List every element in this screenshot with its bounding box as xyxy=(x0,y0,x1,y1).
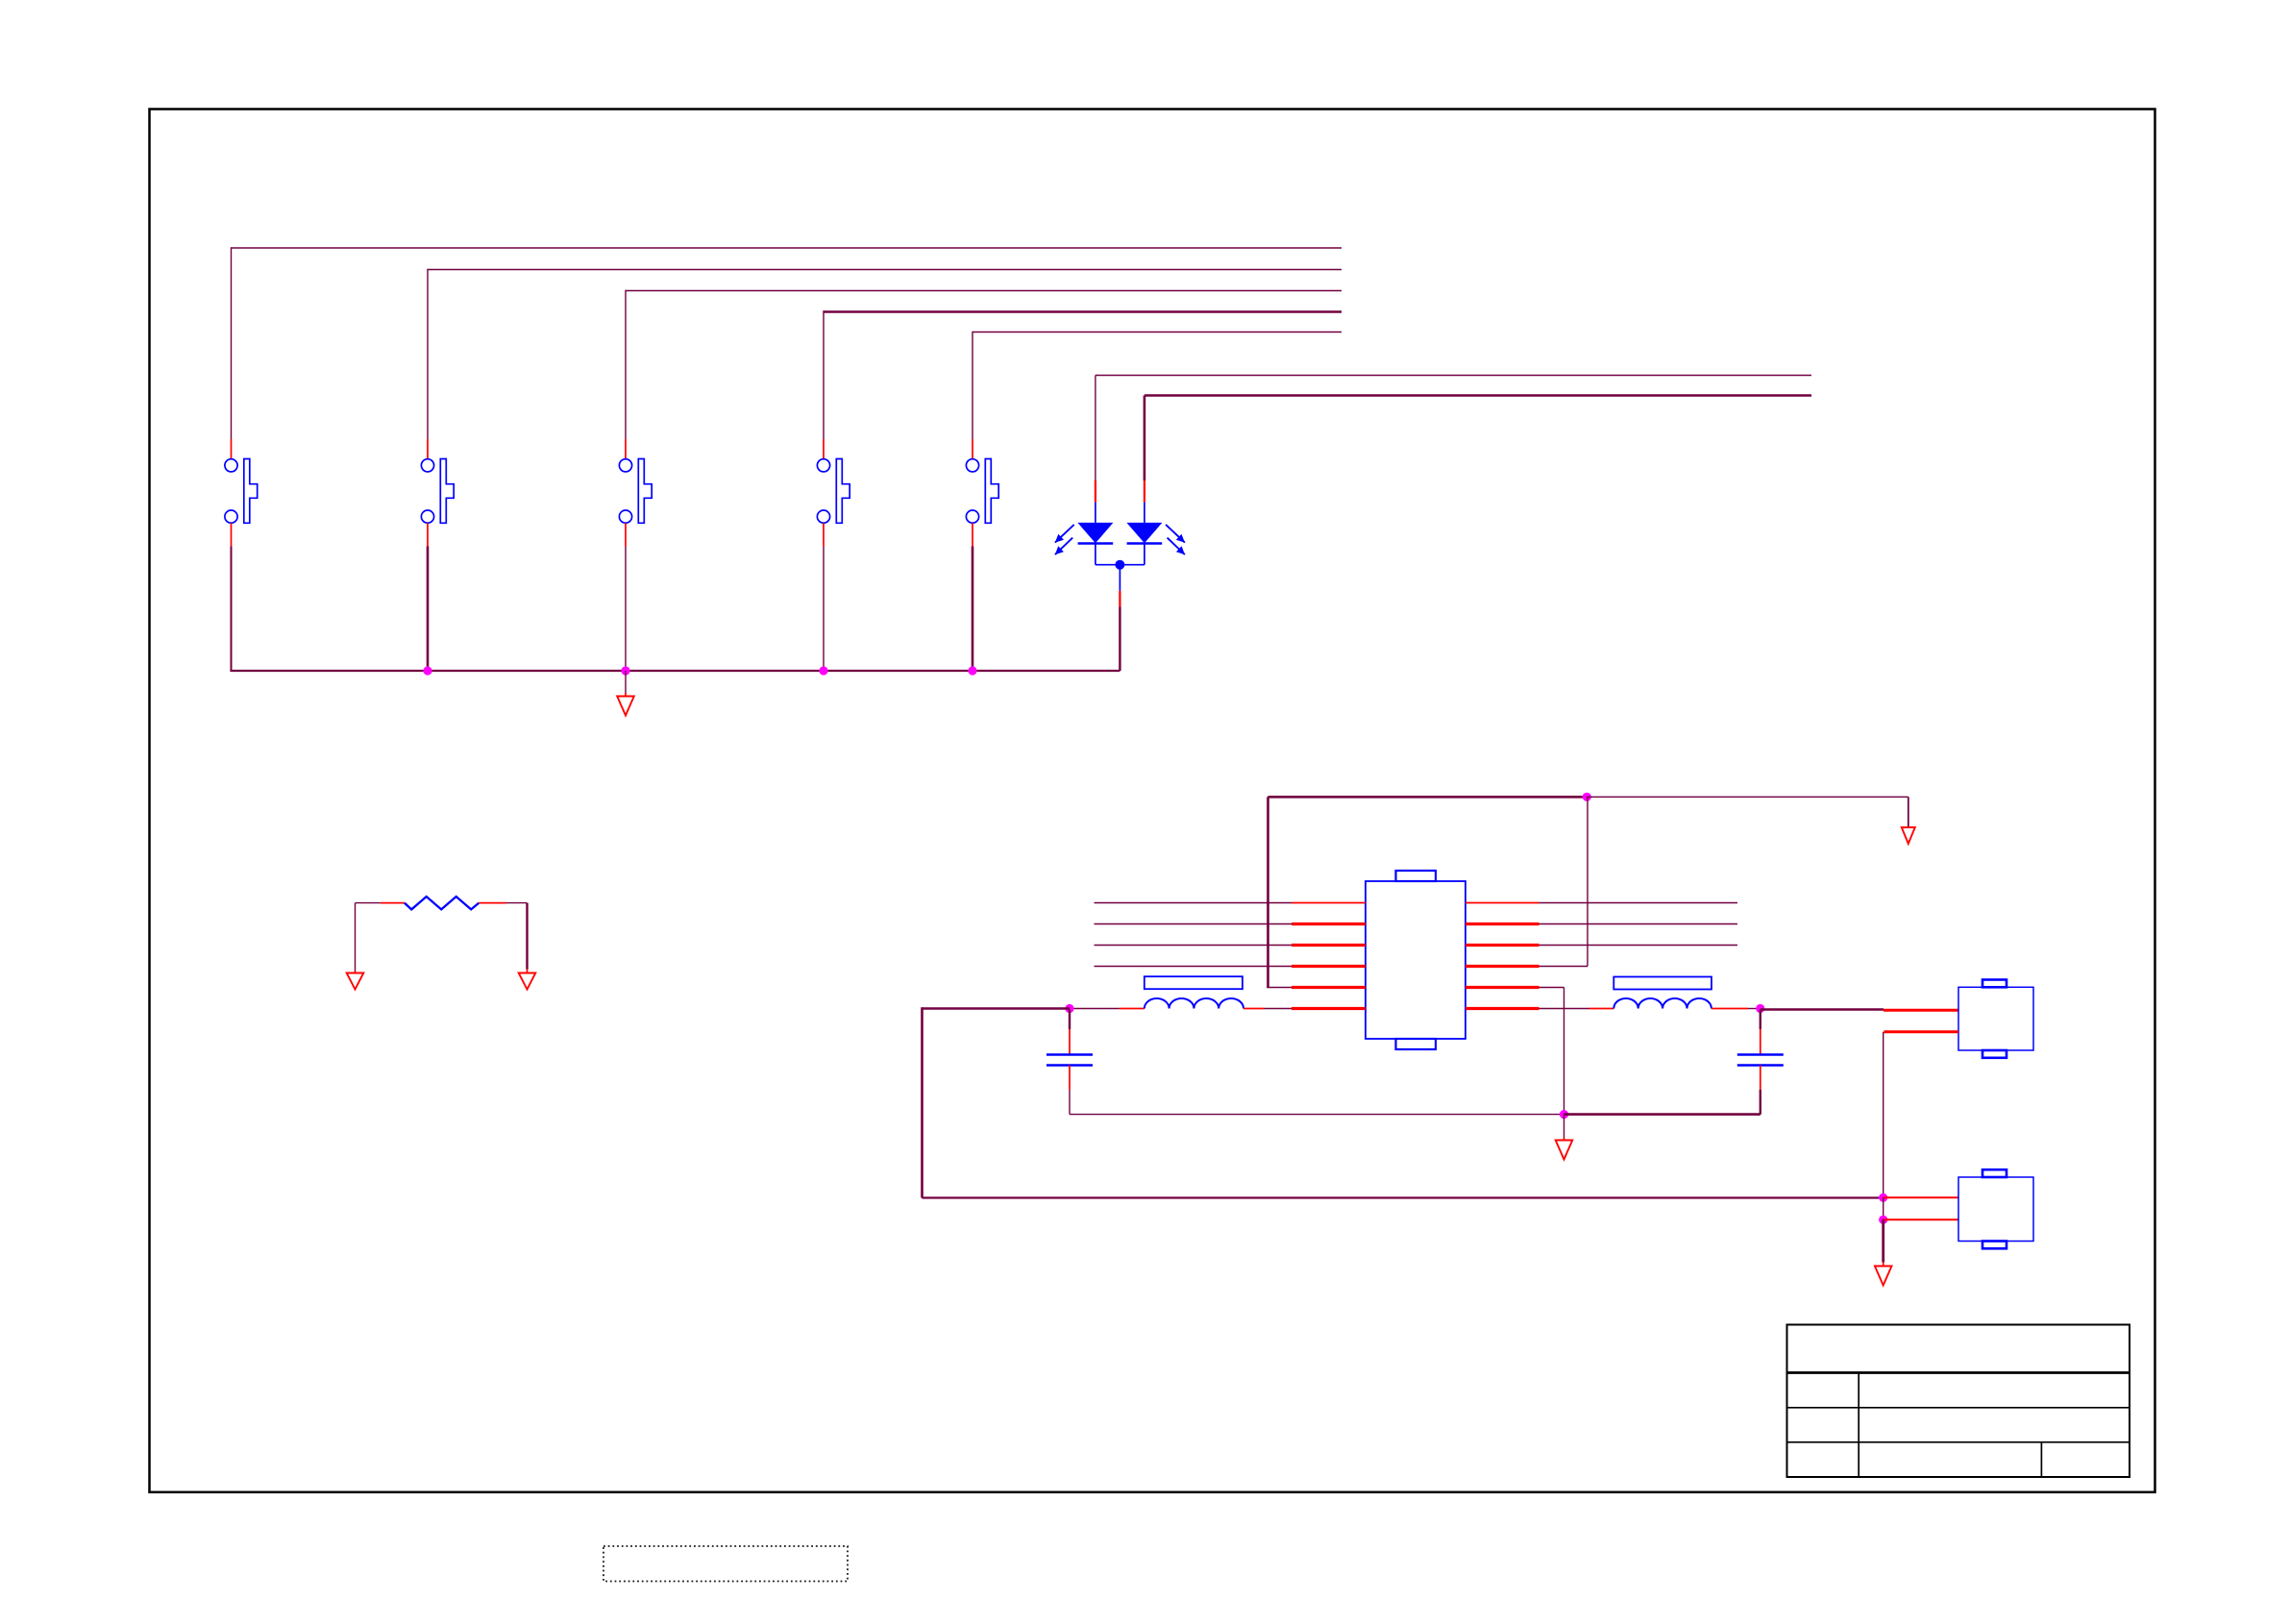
ground return node xyxy=(1556,1115,1573,1160)
wire U1 right pin 2 xyxy=(1539,923,1738,925)
ground under bus xyxy=(617,671,634,716)
junction C2 node xyxy=(1756,1004,1764,1013)
wire J1 pin2 down xyxy=(1884,1032,1958,1198)
wire VCC rail to ground xyxy=(1587,797,1908,826)
wire net LED2 anode xyxy=(1145,396,1811,503)
wire net SW5 to header xyxy=(973,332,1342,459)
junction VCC rail xyxy=(1583,793,1591,801)
wire net SW3 to header xyxy=(626,290,1342,459)
wire VCC top rail xyxy=(1268,796,1588,799)
wire net SW1 to header xyxy=(232,247,1342,458)
wire net SW2 to header xyxy=(428,269,1342,459)
wire U1 left pin 2 xyxy=(1095,923,1293,925)
capacitor C2 xyxy=(1737,1010,1784,1115)
wire net LED1 anode xyxy=(1096,376,1811,503)
wire VOUT rail thick xyxy=(923,1007,1071,1010)
junction J2 pin2 xyxy=(1879,1216,1887,1224)
pushbutton switch SW1 xyxy=(225,459,258,524)
junction C1 node xyxy=(1065,1004,1073,1013)
wire J2 pin1 xyxy=(1884,1197,1958,1219)
wire U1 left pin 4 xyxy=(1095,966,1293,968)
ground left of resistor xyxy=(347,973,364,990)
wire L2 to C2 node xyxy=(1711,1008,1761,1010)
wire U1 right pin 3 xyxy=(1539,945,1738,947)
wire SW5 to GND bus xyxy=(972,523,973,671)
IC U1 xyxy=(1366,871,1465,1049)
wire GND bus xyxy=(230,670,1120,672)
junction J2 pin1 xyxy=(1879,1193,1887,1202)
wire U1 left pin 3 xyxy=(1095,945,1293,947)
wire bottom rail xyxy=(923,1196,1884,1198)
wire U1 left pin 1 xyxy=(1095,902,1293,904)
inductor L2 xyxy=(1613,977,1711,1009)
wire return line thick xyxy=(1564,1113,1761,1116)
junction return node xyxy=(1560,1110,1568,1119)
IC U1 pin stubs xyxy=(1292,903,1539,1009)
dotted annotation box xyxy=(603,1546,848,1582)
wire U1 pin5 to return node xyxy=(1539,988,1564,1115)
wire U1 pin6 to L2 xyxy=(1539,1008,1614,1010)
title block xyxy=(1787,1325,2130,1478)
LED D2 xyxy=(1126,503,1185,565)
pushbutton switch SW5 xyxy=(966,459,998,524)
wire J2 pin2 xyxy=(1884,1218,1958,1220)
wire SW4 to GND bus xyxy=(823,523,825,671)
junction SW5/bus xyxy=(968,666,976,675)
wire U1 right pin 1 xyxy=(1539,902,1738,904)
wire L1 to U1 pin6 xyxy=(1243,1008,1292,1010)
ground right of resistor xyxy=(519,973,536,990)
wire rail left segment xyxy=(1070,1008,1145,1010)
wire SW2 to GND bus xyxy=(427,523,429,671)
wire return line thin xyxy=(1070,1114,1564,1116)
wire SW3 to GND bus xyxy=(625,523,627,671)
LED D1 xyxy=(1055,503,1114,565)
wire LED cathodes to bus xyxy=(1096,560,1145,671)
wire SW1 to GND bus xyxy=(231,523,233,671)
junction SW3/bus xyxy=(621,666,629,675)
connector J2 xyxy=(1958,1169,2033,1248)
wire resistor left leg xyxy=(356,903,405,973)
pushbutton switch SW4 xyxy=(817,459,850,524)
wire VCC thick to U1 pin5 xyxy=(1267,797,1292,987)
ground under J2 xyxy=(1875,1219,1892,1285)
wire net SW4 to header xyxy=(824,310,1342,458)
wire C2 node to J1 pin1 xyxy=(1761,1008,1958,1011)
ground top right xyxy=(1902,827,1915,844)
wire resistor right leg xyxy=(479,903,527,973)
pushbutton switch SW3 xyxy=(619,459,652,524)
pushbutton switch SW2 xyxy=(421,459,454,524)
inductor L1 xyxy=(1145,976,1243,1008)
junction SW2/bus xyxy=(423,666,431,675)
junction SW4/bus xyxy=(819,666,827,675)
wire loop left vertical xyxy=(921,1007,923,1197)
connector J1 xyxy=(1958,980,2033,1058)
wire U1 pin4 right loop xyxy=(1539,797,1588,966)
capacitor C1 xyxy=(1047,1010,1093,1115)
resistor R1 xyxy=(405,897,479,909)
